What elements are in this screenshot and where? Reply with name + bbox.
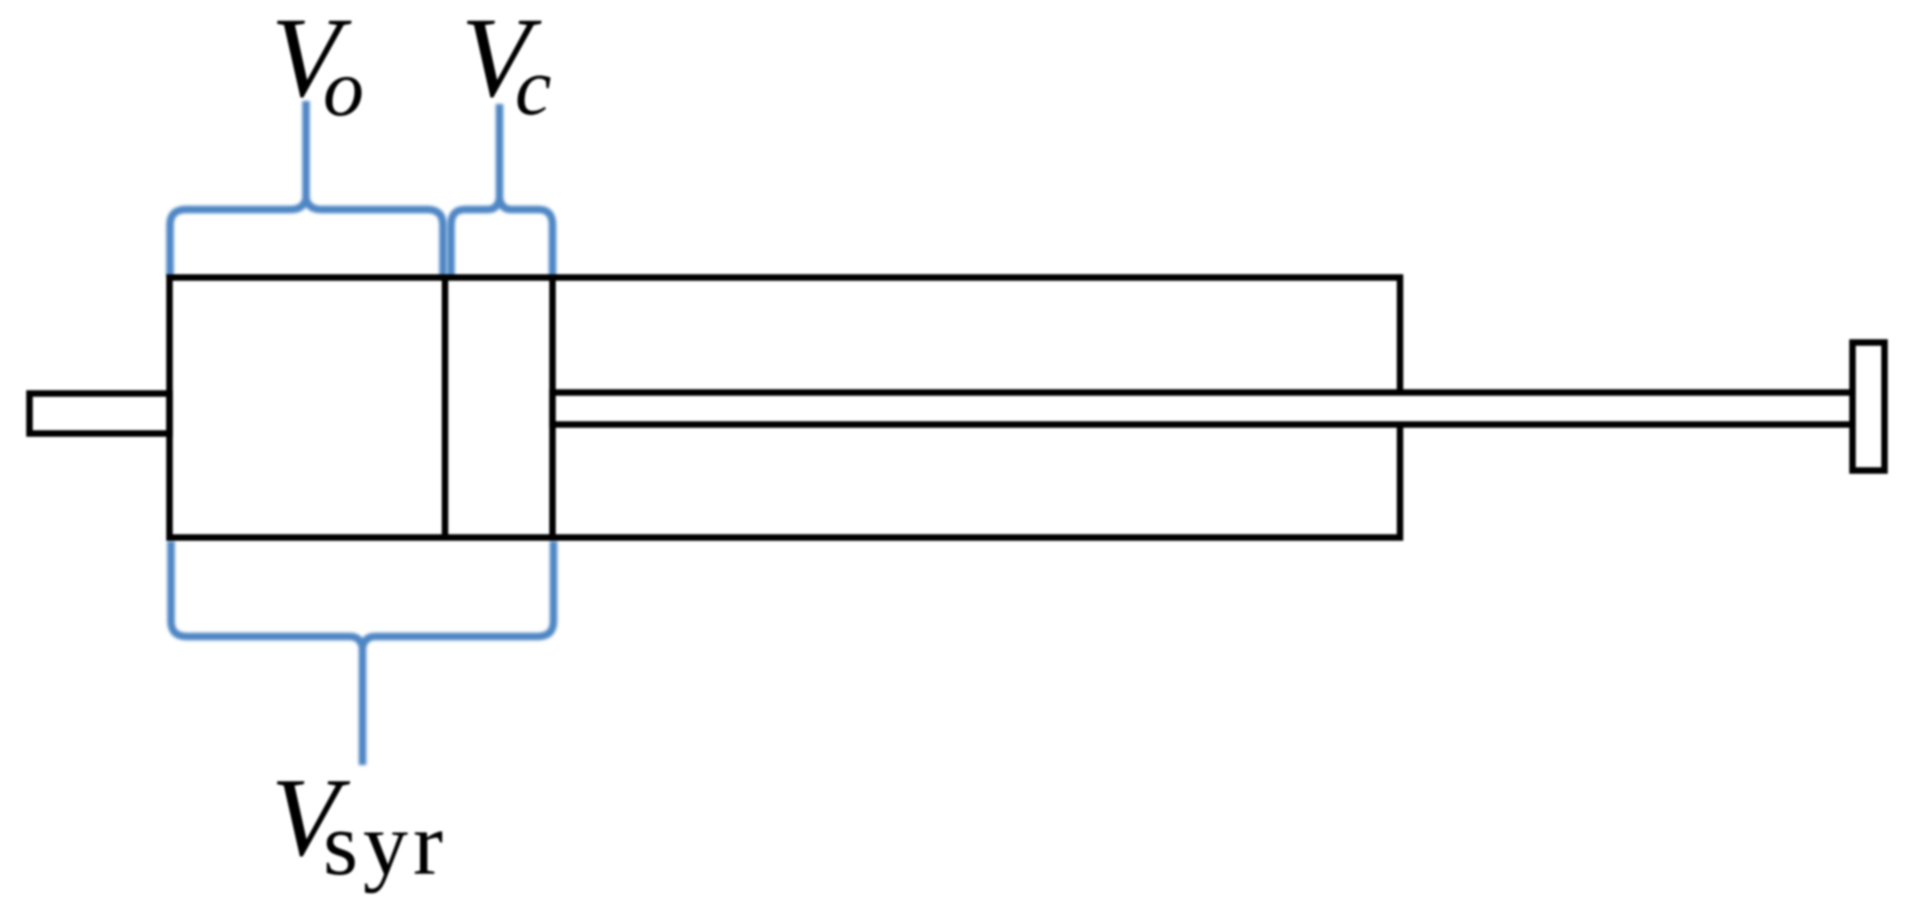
brace Vsyr leader tail: [359, 645, 367, 765]
plunger rod: [553, 393, 1854, 425]
brace Vc (blue curly bracket over compressed region): [451, 104, 553, 276]
syringe tip rod (left outlet): [30, 394, 170, 434]
divider line (gas/liquid interface): [442, 278, 449, 538]
brace Vc leader tail: [496, 104, 504, 201]
brace Vo leader tail: [302, 101, 310, 201]
piston face line: [549, 278, 556, 538]
svg-text:c: c: [515, 41, 551, 132]
brace Vsyr (blue curly bracket under syringe barrel): [171, 541, 554, 765]
brace Vo (blue curly bracket over dead-volume region): [170, 101, 443, 276]
plunger thumb handle: [1853, 343, 1885, 471]
svg-text:o: o: [323, 42, 364, 133]
svg-text:syr: syr: [323, 795, 448, 894]
syringe barrel outline: [170, 278, 1401, 538]
